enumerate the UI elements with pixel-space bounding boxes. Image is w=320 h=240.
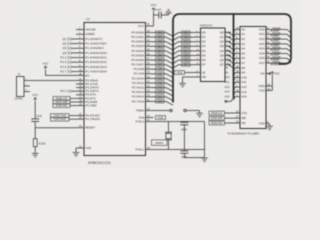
net label RAM_RD [53,104,70,108]
net label AD6 at RAM [271,57,280,60]
net label AD2 at RAM [271,38,280,41]
net label AD0 at RAM [271,28,280,31]
wire P0.7 to bus [154,64,167,66]
U1 pin 3 P1.0/AN0/T2 [76,38,84,40]
U1 pin 14 P3.2/INT0 [76,87,84,89]
U1 pin 31 P2.7/A15 [146,100,154,102]
U1 pin 15 P3.3/INT1 [76,90,84,92]
bus entry A3 [229,45,231,47]
bus exit to RAM A7 [234,63,236,66]
bus entry AD5 [166,56,173,60]
J1 pin 2 [24,85,30,87]
U3 pin 8 A2 [235,38,240,40]
net label AD7 at RAM [271,62,280,65]
U1 pin 11 P3.0/RxD [76,79,84,81]
net label AD0 left [156,31,165,34]
wire P2.3 to bus [154,82,167,84]
wire P0.3 to bus [154,45,167,47]
U2 pin 4 D1 [196,36,201,38]
bus entry AD3 [166,46,173,50]
net label RAM_CS [53,97,70,101]
U2 pin 6 Q2 [225,41,229,43]
U2 pin 9 Q3 [225,45,229,47]
SRAM U3 body [240,27,266,129]
U2 pin 13 D4 [196,50,201,52]
U2 pin 14 D5 [196,55,201,57]
microcontroller U1 AT89C51CC01 body [84,23,146,156]
net label AD0 at latch [182,31,191,34]
U3 pin 1 A14 [235,96,240,98]
U2 pin 3 D0 [196,32,201,34]
wire jumper to ground [186,110,199,112]
ground for VSS [73,152,80,154]
bus entry A1 [229,36,231,38]
net label AD1 left [156,36,165,39]
no-connect A15 stub [231,98,234,102]
wire cap to ground [161,14,168,16]
wire VCC pin up [153,12,155,26]
U3 pin 22 OE [235,122,240,124]
net label ALE at U1 [156,116,166,120]
capacitor C3 30pF bottom [183,150,185,151]
U3 pin 18 I/O6 [266,57,270,59]
bus exit to RAM A1 [234,34,236,37]
wire P0.4 to bus [154,50,167,52]
U1 pin 32 PSEN [146,110,154,112]
U1 pin 40 P0.3/AD3 [146,45,154,47]
bus exit to RAM A12 [234,87,236,90]
U1 pin 5 P1.2/AN2/ECI [76,47,84,49]
wire XTAL2 net [154,121,205,123]
U3 pin 24 A9 [235,72,240,74]
jumper post J2 right [184,109,187,112]
net label RAM CS at RAM [209,111,225,115]
U1 pin 19 P3.7/RD [76,105,84,107]
wire OE to ground [183,76,196,78]
wire P0.6 to bus [154,59,167,61]
U1 pin 16 P3.4/T0 [76,94,84,96]
U1 pin 7 P1.4/AN4/CEX1 [76,57,84,59]
bus exit to D3 [173,46,179,49]
U3 pin 14 VSS [266,123,270,125]
wire I/O1 to bus [270,33,287,35]
bus exit to D1 [173,37,179,40]
ground for reset network [32,152,39,154]
bus entry AD1 right [287,34,291,37]
U3 pin 32 VDD [266,85,272,87]
U1 pin 22 P4.0/TxDC [76,115,84,117]
U3 pin 13 I/O2 [266,38,270,40]
bus entry AD7 [166,65,173,69]
wire PSEN to jumper [154,110,170,112]
U1 pin 10 P1.7/AN7/CEX4 [76,71,84,73]
U2 pin 18 D7 [196,64,201,66]
wire P2.4 to bus [154,87,167,89]
bus entry AD2 [166,42,173,46]
wire I/O2 to bus [270,38,287,40]
net label AD5 at RAM [271,52,280,55]
wire reset node to U1 RESET [35,127,76,129]
net label ALE at latch [175,71,185,75]
net label AD5 left [156,54,165,57]
net label AD6 left [156,59,165,62]
bus exit to RAM A3 [234,44,236,47]
U1 pin 28 P2.4/A12 [146,87,154,89]
net label A14 left [156,95,165,98]
bus entry A10 [166,78,173,82]
wire caps to ground rail [184,157,204,159]
bus exit to RAM A14 [234,97,236,100]
U3 pin 25 A8 [235,67,240,69]
net label AD7 at latch [182,63,191,66]
U3 pin 3 A7 [235,62,240,64]
net label AD5 at latch [182,54,191,57]
U3 pin 30 NC [266,73,269,75]
net label AD6 at latch [182,59,191,62]
net label AD3 at latch [182,45,191,48]
wire P2.2 to bus [154,77,167,79]
wire P0.1 to bus [154,36,167,38]
bus entry A7 [229,64,231,66]
U1 pin 33 ALE [146,117,154,119]
U3 pin 2 A12 [235,86,240,88]
U1 pin 39 P0.4/AD4 [146,50,154,52]
bus exit to RAM A6 [234,58,236,61]
U3 pin 19 I/O7 [266,62,270,64]
net label AD4 left [156,49,165,52]
U2 pin 7 D2 [196,41,201,43]
bus entry A5 [229,55,231,57]
wire I/O3 to bus [270,43,287,45]
U3 pin 9 A1 [235,33,240,35]
ground for PSEN jumper [196,112,203,114]
U3 pin 7 A3 [235,43,240,45]
bus exit to RAM A9 [234,73,236,76]
U1 pin 24 RESET [76,127,84,129]
wire bus to D4 [179,50,196,52]
U1 pin 13 P3.1/TxD [76,83,84,85]
U1 pin 41 P0.2/AD2 [146,41,154,43]
wire to decoupling cap [154,14,159,16]
net label AD2 left [156,40,165,43]
net label AD3 at RAM [271,42,280,45]
U1 pin 18 P3.6/WR [76,101,84,103]
U3 pin 30 CS2 [266,90,272,92]
wire VCC rail down [34,102,36,119]
U1 pin 43 P0.0/AD0 [146,32,154,34]
U2 pin 17 D6 [196,59,201,61]
U3 pin 12 I/O1 [266,33,270,35]
U1 pin 35 EA [76,74,84,76]
wire bus to D6 [179,59,196,61]
bus entry A15 [166,101,173,105]
net label AD4 at RAM [271,47,280,50]
wire VSS to ground [269,124,271,127]
bus entry AD2 right [287,39,291,42]
bus entry A6 [229,59,231,61]
bus exit to RAM A0 [234,30,236,33]
no-connect circle NC [269,73,271,75]
bus entry AD0 [166,33,173,37]
bus entry AD4 right [287,49,291,52]
wire P0.5 to bus [154,55,167,57]
wire bus to D2 [179,41,196,43]
wire bus to D7 [179,64,196,66]
U2 pin 5 Q1 [225,36,229,38]
U3 pin 6 A4 [235,48,240,50]
net label A11 left [156,81,165,84]
wire bus to D5 [179,55,196,57]
latch U2 74HC373 body [201,28,226,82]
address/data bus loop [173,14,291,103]
jumper post J2 left [170,109,173,112]
wire P2.0 to bus [154,68,167,70]
U1 pin 35 XTAL1 [146,149,154,151]
wire P0.0 to bus [154,32,167,34]
U1 pin 29 P2.5/A13 [146,91,154,93]
net label A12 left [156,86,165,89]
net label AD7 left [156,63,165,66]
wire I/O5 to bus [270,53,287,55]
U3 pin 10 A0 [235,29,240,31]
net label A8 left [156,68,165,71]
bus entry AD6 right [287,58,291,61]
bus entry AD5 right [287,54,291,57]
ground for U2 OE [179,82,186,84]
U1 pin 6 P1.3/AN3/CEX0 [76,52,84,54]
bus exit to D0 [173,33,179,36]
bus entry A0 [229,32,231,34]
wire P2.1 to bus [154,73,167,75]
ground for C1 [165,12,172,14]
U3 pin 21 A10 [235,77,240,79]
bus entry AD3 right [287,44,291,47]
U1 pin 36 P0.7/AD7 [146,64,154,66]
U3 pin 15 I/O3 [266,43,270,45]
net label CAN_TxD [51,114,70,118]
U1 pin 37 P0.6/AD6 [146,59,154,61]
U1 pin 4 P1.1/AN1/T2EX [76,43,84,45]
net label AD1 at latch [182,36,191,39]
capacitor C2 30pF top [183,121,185,124]
bus exit to D7 [173,65,179,68]
bus entry AD6 [166,60,173,64]
bus entry A2 [229,41,231,43]
bus branch to RAM address pins [233,14,235,98]
bus exit to RAM A2 [234,39,236,42]
bus entry A14 [166,97,173,101]
connector J1 CON3 body [17,77,25,97]
U1 pin 27 P2.3/A11 [146,82,154,84]
bus entry A9 [166,74,173,78]
wire bus to D0 [179,32,196,34]
net label A15 left [156,100,165,103]
wire cap to reset node [34,122,36,139]
J1 pin 3 [24,91,30,93]
U1 pin 2 VAREF [76,33,84,35]
net label AD1 at RAM [271,33,280,36]
crystal Y1 24MHz [168,122,170,133]
wire xtal ground rail [204,122,206,158]
capacitor C1 0.1uF [158,12,160,19]
bus entry AD0 right [287,30,291,33]
resistor R1 8.2k [33,139,37,147]
bus entry A12 [166,88,173,92]
wire I/O6 to bus [270,57,287,59]
bus exit to D2 [173,42,179,45]
wire I/O0 to bus [270,29,287,31]
U2 pin 16 Q6 [225,59,229,61]
net label CAN_RxD [51,117,70,121]
bus exit to RAM A11 [234,82,236,85]
U2 pin 1 OE [196,76,201,78]
U1 pin 34 XTAL2 [146,121,154,123]
U1 pin 1 VAGND [76,29,84,31]
U2 pin 19 Q7 [225,64,229,66]
U3 pin 16 I/O4 [266,48,270,50]
U3 pin 4 A6 [235,57,240,59]
U3 pin 27 WE [235,117,240,119]
net label AD2 at latch [182,40,191,43]
U1 pin 12 VSS [76,147,84,149]
wire VSS to ground [75,148,77,153]
bus exit to RAM A4 [234,49,236,52]
U2 pin 2 Q0 [225,32,229,34]
net label AD4 at latch [182,49,191,52]
bus entry A11 [166,83,173,87]
U3 pin 11 I/O0 [266,29,270,31]
bus exit to D6 [173,60,179,63]
net label RAM_WR [53,100,70,104]
wire VCC to EA [46,71,77,76]
net label A13 left [156,91,165,94]
U1 pin 44 VCC [146,25,154,27]
wire XTAL1 net [154,149,205,151]
value label 24MHz [152,140,168,146]
wire I/O7 to bus [270,62,287,64]
wire bus to D3 [179,45,196,47]
U1 pin 8 P1.5/AN5/CEX2 [76,61,84,63]
bus entry A13 [166,92,173,96]
bus entry A4 [229,50,231,52]
U1 pin 17 P3.5/T1 [76,97,84,99]
J1 pin 1 [24,80,30,82]
power flag VCC at RAM [271,72,273,77]
U1 pin 24 P2.0/A8 [146,68,154,70]
wire resistor to ground [34,147,36,154]
wire P2.7 to bus [154,100,167,102]
bus exit to RAM A13 [234,92,236,95]
bus entry AD7 right [287,62,291,65]
U3 pin 5 A5 [235,53,240,55]
wire bus to D1 [179,36,196,38]
no-connect circle A15 [225,100,227,102]
wire P2.5 to bus [154,91,167,93]
net label AD3 left [156,45,165,48]
bus exit to D4 [173,51,179,54]
U2 pin 11 LE [196,72,201,74]
U1 pin 25 P2.1/A9 [146,73,154,75]
net label RAM RD at RAM [209,121,225,125]
net label RAM WR at RAM [209,116,225,120]
capacitor C4 22uF [31,118,39,120]
wire VDD CS2 to VCC [271,76,273,91]
ground for crystal circuit [201,157,208,159]
net label A9 left [156,72,165,75]
bus entry AD1 [166,37,173,41]
bus exit to RAM A5 [234,54,236,57]
U1 pin 38 P0.5/AD5 [146,55,154,57]
wire P0.2 to bus [154,41,167,43]
U3 pin 26 A13 [235,91,240,93]
wire I/O4 to bus [270,48,287,50]
bus exit to RAM A8 [234,68,236,71]
ground for U3 [266,125,273,127]
U1 pin 26 P2.2/A10 [146,77,154,79]
bus entry A8 [166,69,173,73]
net label A10 left [156,77,165,80]
U3 pin 20 CS1 [235,112,240,114]
wire J1 pin1 to U1 P3.0 [30,80,76,82]
U2 pin 8 D3 [196,45,201,47]
U1 pin 30 P2.6/A14 [146,96,154,98]
bus entry AD4 [166,51,173,55]
U1 pin 42 P0.1/AD1 [146,36,154,38]
wire P2.6 to bus [154,96,167,98]
U2 pin 12 Q4 [225,50,229,52]
U1 pin 9 P1.6/AN6/CEX3 [76,66,84,68]
bus exit to RAM A10 [234,78,236,81]
U3 pin 17 I/O5 [266,53,270,55]
bus exit to D5 [173,56,179,59]
U3 pin 23 A11 [235,81,240,83]
U1 pin 23 P4.1/RxDC [76,118,84,120]
U2 pin 15 Q5 [225,55,229,57]
